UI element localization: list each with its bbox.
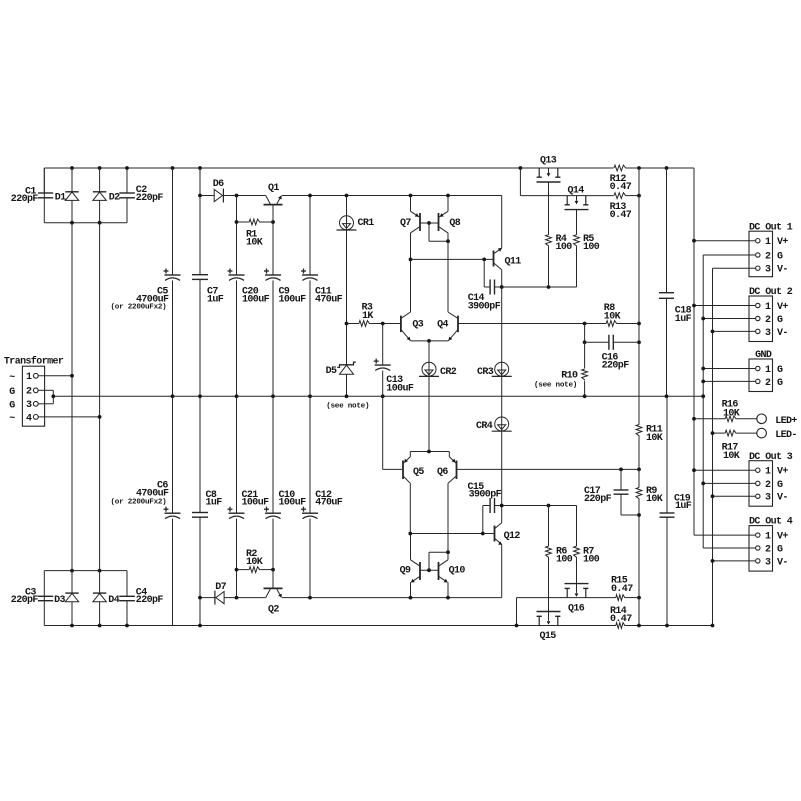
resistor R17 bbox=[713, 432, 726, 434]
diode D7 bbox=[216, 592, 224, 604]
svg-text:(see note): (see note) bbox=[326, 403, 369, 411]
svg-text:220pF: 220pF bbox=[11, 595, 39, 606]
svg-text:3900pF: 3900pF bbox=[469, 490, 502, 501]
svg-text:470uF: 470uF bbox=[315, 498, 343, 509]
svg-text:G: G bbox=[777, 544, 783, 555]
resistor R9 bbox=[636, 488, 642, 500]
capacitor C10 bbox=[272, 396, 274, 513]
wire DC4 pin3 bbox=[713, 560, 756, 562]
svg-text:100uF: 100uF bbox=[279, 295, 307, 306]
wire DC3 pin1 bbox=[694, 469, 755, 471]
wire DC1 pin2 bbox=[703, 254, 755, 256]
svg-text:Q12: Q12 bbox=[504, 531, 521, 542]
svg-text:Q2: Q2 bbox=[268, 604, 279, 615]
svg-text:3: 3 bbox=[765, 493, 771, 504]
svg-text:10K: 10K bbox=[646, 494, 663, 505]
capacitor C5 bbox=[171, 166, 175, 170]
resistor R8 bbox=[583, 322, 587, 326]
resistor R14 bbox=[616, 623, 626, 629]
current regulator CR2 bbox=[428, 341, 430, 452]
svg-text:Q14: Q14 bbox=[568, 185, 585, 196]
connector DC Out 1 bbox=[749, 231, 773, 277]
wire G distribution bbox=[702, 255, 704, 548]
connector DC Out 4 bbox=[749, 526, 773, 572]
wire AC line left bbox=[71, 223, 73, 571]
zener D5 bbox=[337, 362, 355, 367]
diode D1 bbox=[71, 168, 73, 192]
capacitor C19 bbox=[666, 396, 668, 513]
terminal LED+ bbox=[757, 414, 767, 424]
svg-text:LED-: LED- bbox=[775, 430, 797, 441]
diode D2 bbox=[99, 168, 101, 192]
diode D3 bbox=[71, 571, 73, 593]
svg-text:CR3: CR3 bbox=[477, 367, 494, 378]
svg-text:220pF: 220pF bbox=[11, 194, 39, 205]
wire Q5/Q6 emitters bbox=[410, 451, 449, 453]
wire V- bottom rail bbox=[44, 625, 616, 627]
svg-text:Q6: Q6 bbox=[437, 467, 448, 478]
wire Q9 collector to Q12 base bbox=[410, 533, 494, 535]
resistor R11 bbox=[636, 425, 642, 437]
svg-text:CR1: CR1 bbox=[358, 218, 375, 229]
wire V- distribution bbox=[712, 268, 714, 625]
svg-text:3: 3 bbox=[765, 557, 771, 568]
svg-text:Q4: Q4 bbox=[437, 319, 448, 330]
transistor Q10 bbox=[438, 562, 440, 580]
wire Q4 base feedback bbox=[458, 323, 585, 325]
wire DC3 pin3 bbox=[713, 495, 756, 497]
svg-text:CR4: CR4 bbox=[476, 421, 493, 432]
svg-text:D1: D1 bbox=[55, 192, 66, 203]
svg-text:1uF: 1uF bbox=[207, 295, 224, 306]
svg-text:Transformer: Transformer bbox=[4, 356, 64, 368]
svg-text:D7: D7 bbox=[215, 582, 226, 593]
resistor R1 bbox=[236, 196, 238, 223]
svg-text:D2: D2 bbox=[109, 192, 120, 203]
capacitor C3 bbox=[38, 595, 53, 597]
svg-text:G: G bbox=[777, 365, 783, 376]
svg-text:Q10: Q10 bbox=[449, 565, 466, 576]
svg-text:2: 2 bbox=[26, 387, 32, 398]
pin 2 bbox=[33, 388, 38, 393]
resistor R6 bbox=[546, 546, 552, 558]
svg-text:Q3: Q3 bbox=[412, 319, 423, 330]
svg-text:0.47: 0.47 bbox=[610, 210, 632, 221]
wire DC2 pin3 bbox=[713, 330, 756, 332]
wire V+ distribution bbox=[693, 168, 695, 535]
svg-text:(or 2200uFx2): (or 2200uFx2) bbox=[111, 498, 167, 506]
svg-text:(or 2200uFx2): (or 2200uFx2) bbox=[111, 304, 167, 312]
svg-text:1K: 1K bbox=[362, 311, 373, 322]
svg-text:10K: 10K bbox=[646, 433, 663, 444]
wire AC line right bbox=[99, 223, 101, 571]
diode D4 bbox=[99, 571, 101, 593]
capacitor C1 bbox=[43, 168, 45, 193]
svg-text:V+: V+ bbox=[777, 302, 788, 313]
wire R12/R13 junction bbox=[637, 166, 641, 170]
transistor Q11 bbox=[493, 251, 495, 267]
mosfet Q15 bbox=[538, 616, 540, 625]
svg-text:0.47: 0.47 bbox=[610, 614, 632, 625]
wire GND pin2 bbox=[703, 380, 755, 382]
current regulator CR3 bbox=[501, 287, 503, 396]
svg-text:G: G bbox=[777, 480, 783, 491]
connector Transformer bbox=[22, 366, 44, 426]
svg-text:DC Out 1: DC Out 1 bbox=[749, 222, 793, 233]
svg-text:Q7: Q7 bbox=[400, 218, 411, 229]
capacitor C15 bbox=[482, 506, 484, 534]
svg-text:G: G bbox=[9, 400, 15, 411]
svg-text:2: 2 bbox=[765, 315, 771, 326]
svg-text:10K: 10K bbox=[246, 557, 263, 568]
wire Q5 collector column bbox=[409, 483, 411, 533]
svg-text:DC Out 3: DC Out 3 bbox=[749, 452, 793, 463]
svg-text:0.47: 0.47 bbox=[610, 182, 632, 193]
svg-text:GND: GND bbox=[755, 350, 772, 361]
svg-text:V-: V- bbox=[777, 557, 788, 568]
svg-text:V-: V- bbox=[777, 328, 788, 339]
resistor R12 bbox=[614, 165, 627, 171]
svg-text:Q9: Q9 bbox=[400, 565, 411, 576]
svg-text:100: 100 bbox=[556, 555, 573, 566]
svg-text:R10: R10 bbox=[561, 371, 578, 382]
svg-text:220pF: 220pF bbox=[136, 595, 164, 606]
svg-text:3: 3 bbox=[26, 400, 32, 411]
transistor Q5 bbox=[402, 461, 404, 480]
capacitor C16 bbox=[584, 324, 586, 343]
connector DC Out 2 bbox=[749, 296, 773, 342]
svg-text:470uF: 470uF bbox=[315, 295, 343, 306]
svg-text:V+: V+ bbox=[777, 532, 788, 543]
wire DC4 pin1 bbox=[694, 534, 755, 536]
wire Q9/Q10 base tie bbox=[420, 569, 439, 571]
wire DC2 pin1 bbox=[694, 305, 755, 307]
svg-text:220pF: 220pF bbox=[136, 193, 164, 204]
capacitor C7 bbox=[198, 166, 202, 170]
wire ground reference to Q5 bbox=[382, 396, 384, 469]
capacitor C17 bbox=[620, 469, 622, 490]
svg-text:Q8: Q8 bbox=[449, 218, 460, 229]
wire transformer pin2/pin3 to ground bbox=[39, 389, 54, 391]
mosfet Q16 bbox=[566, 588, 568, 597]
wire Q11 emitter node bbox=[500, 285, 504, 289]
svg-text:Q11: Q11 bbox=[505, 257, 522, 268]
wire DC4 pin2 bbox=[703, 547, 755, 549]
wire Q3/Q4 emitters bbox=[411, 340, 449, 342]
capacitor C11 bbox=[309, 196, 311, 276]
wire bottom-left block bbox=[43, 571, 45, 626]
resistor R5 bbox=[576, 210, 578, 235]
resistor R16 bbox=[694, 418, 725, 420]
svg-text:Q15: Q15 bbox=[540, 631, 557, 642]
svg-text:1: 1 bbox=[765, 237, 771, 248]
svg-text:1uF: 1uF bbox=[675, 501, 692, 512]
svg-text:10K: 10K bbox=[246, 237, 263, 248]
capacitor C9 bbox=[272, 206, 274, 275]
wire transformer pin1 to AC left bbox=[39, 375, 73, 377]
svg-text:3: 3 bbox=[765, 328, 771, 339]
transistor Q12 bbox=[494, 526, 496, 542]
svg-text:G: G bbox=[9, 387, 15, 398]
wire Q6 base tracking bbox=[457, 468, 640, 470]
wire top-left block bbox=[43, 168, 45, 223]
capacitor C12 bbox=[309, 396, 311, 513]
wire Q2 emitter line bbox=[282, 597, 502, 599]
svg-text:D4: D4 bbox=[108, 595, 119, 606]
svg-text:~: ~ bbox=[9, 414, 15, 425]
transistor Q9 bbox=[419, 562, 421, 580]
wire GND pin1 bbox=[703, 368, 755, 370]
resistor R13 bbox=[614, 193, 627, 199]
transistor Q1 bbox=[264, 204, 283, 206]
svg-text:DC Out 4: DC Out 4 bbox=[749, 517, 793, 528]
svg-text:(see note): (see note) bbox=[534, 381, 577, 389]
svg-text:1: 1 bbox=[765, 467, 771, 478]
svg-text:100: 100 bbox=[583, 242, 600, 253]
pin 1 bbox=[33, 373, 38, 378]
capacitor C8 bbox=[199, 396, 201, 512]
svg-text:1uF: 1uF bbox=[675, 314, 692, 325]
svg-text:1: 1 bbox=[765, 532, 771, 543]
connector GND bbox=[749, 359, 773, 392]
capacitor C6 bbox=[172, 396, 174, 513]
wire DC1 pin3 bbox=[713, 267, 756, 269]
svg-text:220pF: 220pF bbox=[602, 361, 630, 372]
svg-text:D3: D3 bbox=[54, 595, 65, 606]
terminal LED- bbox=[757, 428, 767, 438]
svg-text:G: G bbox=[777, 378, 783, 389]
svg-text:Q1: Q1 bbox=[268, 183, 279, 194]
svg-text:2: 2 bbox=[765, 251, 771, 262]
svg-text:4: 4 bbox=[26, 413, 32, 424]
svg-text:LED+: LED+ bbox=[775, 416, 797, 427]
mosfet Q13 bbox=[519, 166, 523, 170]
svg-text:Q5: Q5 bbox=[413, 467, 424, 478]
svg-text:3900pF: 3900pF bbox=[468, 301, 501, 312]
svg-text:10K: 10K bbox=[723, 408, 740, 419]
transistor Q4 bbox=[457, 316, 459, 333]
wire DC1 pin1 bbox=[694, 240, 755, 242]
svg-text:2: 2 bbox=[765, 480, 771, 491]
wire transformer pin4 to AC right bbox=[39, 416, 100, 418]
svg-text:1: 1 bbox=[26, 372, 32, 383]
wire Q1 emitter line bbox=[282, 195, 502, 197]
wire Q16 line bbox=[517, 597, 616, 599]
svg-text:G: G bbox=[777, 251, 783, 262]
resistor R7 bbox=[574, 546, 580, 558]
wire Q6 collector column bbox=[447, 483, 449, 552]
wire Q7/Q8 base tie bbox=[420, 222, 439, 224]
svg-text:100: 100 bbox=[556, 242, 573, 253]
capacitor C18 bbox=[665, 166, 669, 170]
svg-text:100uF: 100uF bbox=[386, 384, 414, 395]
capacitor C4 bbox=[119, 595, 135, 597]
svg-text:100uF: 100uF bbox=[242, 498, 270, 509]
transistor Q7 bbox=[419, 213, 421, 231]
capacitor C13 bbox=[382, 324, 384, 366]
svg-text:Q13: Q13 bbox=[540, 155, 557, 166]
svg-text:G: G bbox=[777, 315, 783, 326]
transistor Q6 bbox=[456, 461, 458, 480]
mosfet Q14 bbox=[566, 196, 568, 205]
pin 4 bbox=[33, 415, 38, 420]
resistor R10 bbox=[584, 342, 586, 368]
svg-text:D6: D6 bbox=[213, 179, 224, 190]
transistor Q3 bbox=[400, 316, 402, 333]
connector DC Out 3 bbox=[749, 461, 773, 507]
svg-text:10K: 10K bbox=[723, 451, 740, 462]
wire Q7 collector to Q11 base bbox=[411, 258, 494, 260]
svg-text:V+: V+ bbox=[777, 467, 788, 478]
capacitor C14 bbox=[483, 259, 485, 287]
svg-text:DC Out 2: DC Out 2 bbox=[749, 287, 793, 298]
svg-text:2: 2 bbox=[765, 378, 771, 389]
wire DC3 pin2 bbox=[703, 482, 755, 484]
resistor R2 bbox=[236, 570, 238, 598]
wire ground rail bbox=[53, 395, 703, 397]
svg-text:Q16: Q16 bbox=[568, 604, 585, 615]
svg-text:V+: V+ bbox=[777, 237, 788, 248]
svg-text:0.47: 0.47 bbox=[611, 584, 633, 595]
transistor Q2 bbox=[264, 587, 283, 589]
wire V+ top bus bbox=[44, 167, 613, 169]
capacitor C2 bbox=[119, 192, 135, 194]
svg-text:100uF: 100uF bbox=[242, 295, 270, 306]
svg-text:V-: V- bbox=[777, 265, 788, 276]
resistor R4 bbox=[548, 182, 550, 235]
current regulator CR4 bbox=[501, 396, 503, 505]
svg-text:~: ~ bbox=[9, 372, 15, 383]
svg-text:V-: V- bbox=[777, 493, 788, 504]
svg-text:2: 2 bbox=[765, 544, 771, 555]
pin 3 bbox=[33, 401, 38, 406]
resistor R15 bbox=[616, 595, 626, 601]
svg-text:3: 3 bbox=[765, 265, 771, 276]
current regulator CR1 bbox=[346, 196, 348, 324]
svg-text:D5: D5 bbox=[326, 366, 337, 377]
svg-text:CR2: CR2 bbox=[440, 367, 457, 378]
svg-text:1: 1 bbox=[765, 302, 771, 313]
wire DC2 pin2 bbox=[703, 318, 755, 320]
svg-text:100uF: 100uF bbox=[279, 498, 307, 509]
wire Q13 gate branch bbox=[519, 168, 521, 196]
resistor R3 bbox=[359, 321, 370, 327]
svg-text:1uF: 1uF bbox=[206, 498, 223, 509]
capacitor C21 bbox=[236, 396, 238, 513]
wire V- unreg to regulator bbox=[200, 597, 205, 599]
wire output sense column bbox=[638, 196, 640, 425]
svg-text:220pF: 220pF bbox=[584, 494, 612, 505]
svg-text:1: 1 bbox=[765, 365, 771, 376]
svg-text:100: 100 bbox=[583, 555, 600, 566]
wire V+ unreg to regulator bbox=[200, 195, 214, 197]
transistor Q8 bbox=[438, 213, 440, 231]
capacitor C20 bbox=[236, 196, 238, 276]
svg-text:10K: 10K bbox=[604, 312, 621, 323]
diode D6 bbox=[214, 189, 222, 201]
